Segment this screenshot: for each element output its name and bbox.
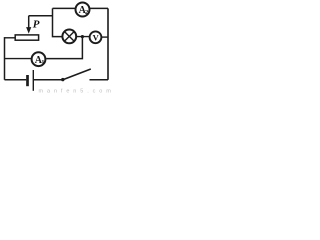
wire battery to switch pivot [34,79,63,81]
wire top from junction column to right rail [53,7,109,9]
wire junction column (slider node to lamp row) [53,8,62,36]
svg-text:V: V [93,32,100,42]
svg-text:manfen5.com: manfen5.com [39,89,115,95]
rheostat slider arrow [28,16,30,29]
voltmeter V [90,31,102,43]
ammeter A1 [32,52,46,66]
wire V to right rail [96,36,108,38]
wire switch right terminal to right rail [90,79,109,81]
wire stub down from lamp-V node to A1 row [46,37,82,59]
battery long plate (positive) [32,70,34,91]
lamp L [62,30,76,44]
wire A1 to left rail [5,58,32,60]
resistor box (rheostat body) [15,35,38,40]
ammeter A2 [76,3,90,17]
battery short plate (negative) [26,75,29,86]
node junction dot between lamp and voltmeter [81,35,84,38]
svg-text:1: 1 [41,59,44,66]
svg-text:P: P [33,18,40,30]
wire slider to junction column [29,15,53,17]
wire middle row lamp to V [62,36,90,38]
wire bottom left rail to battery [5,79,27,81]
wire rheostat left terminal to left rail [5,37,16,39]
switch pivot dot [61,78,64,81]
wire left rail [4,37,6,80]
wire right rail [107,8,109,79]
switch blade (open) [63,69,91,80]
svg-text:2: 2 [85,9,88,16]
